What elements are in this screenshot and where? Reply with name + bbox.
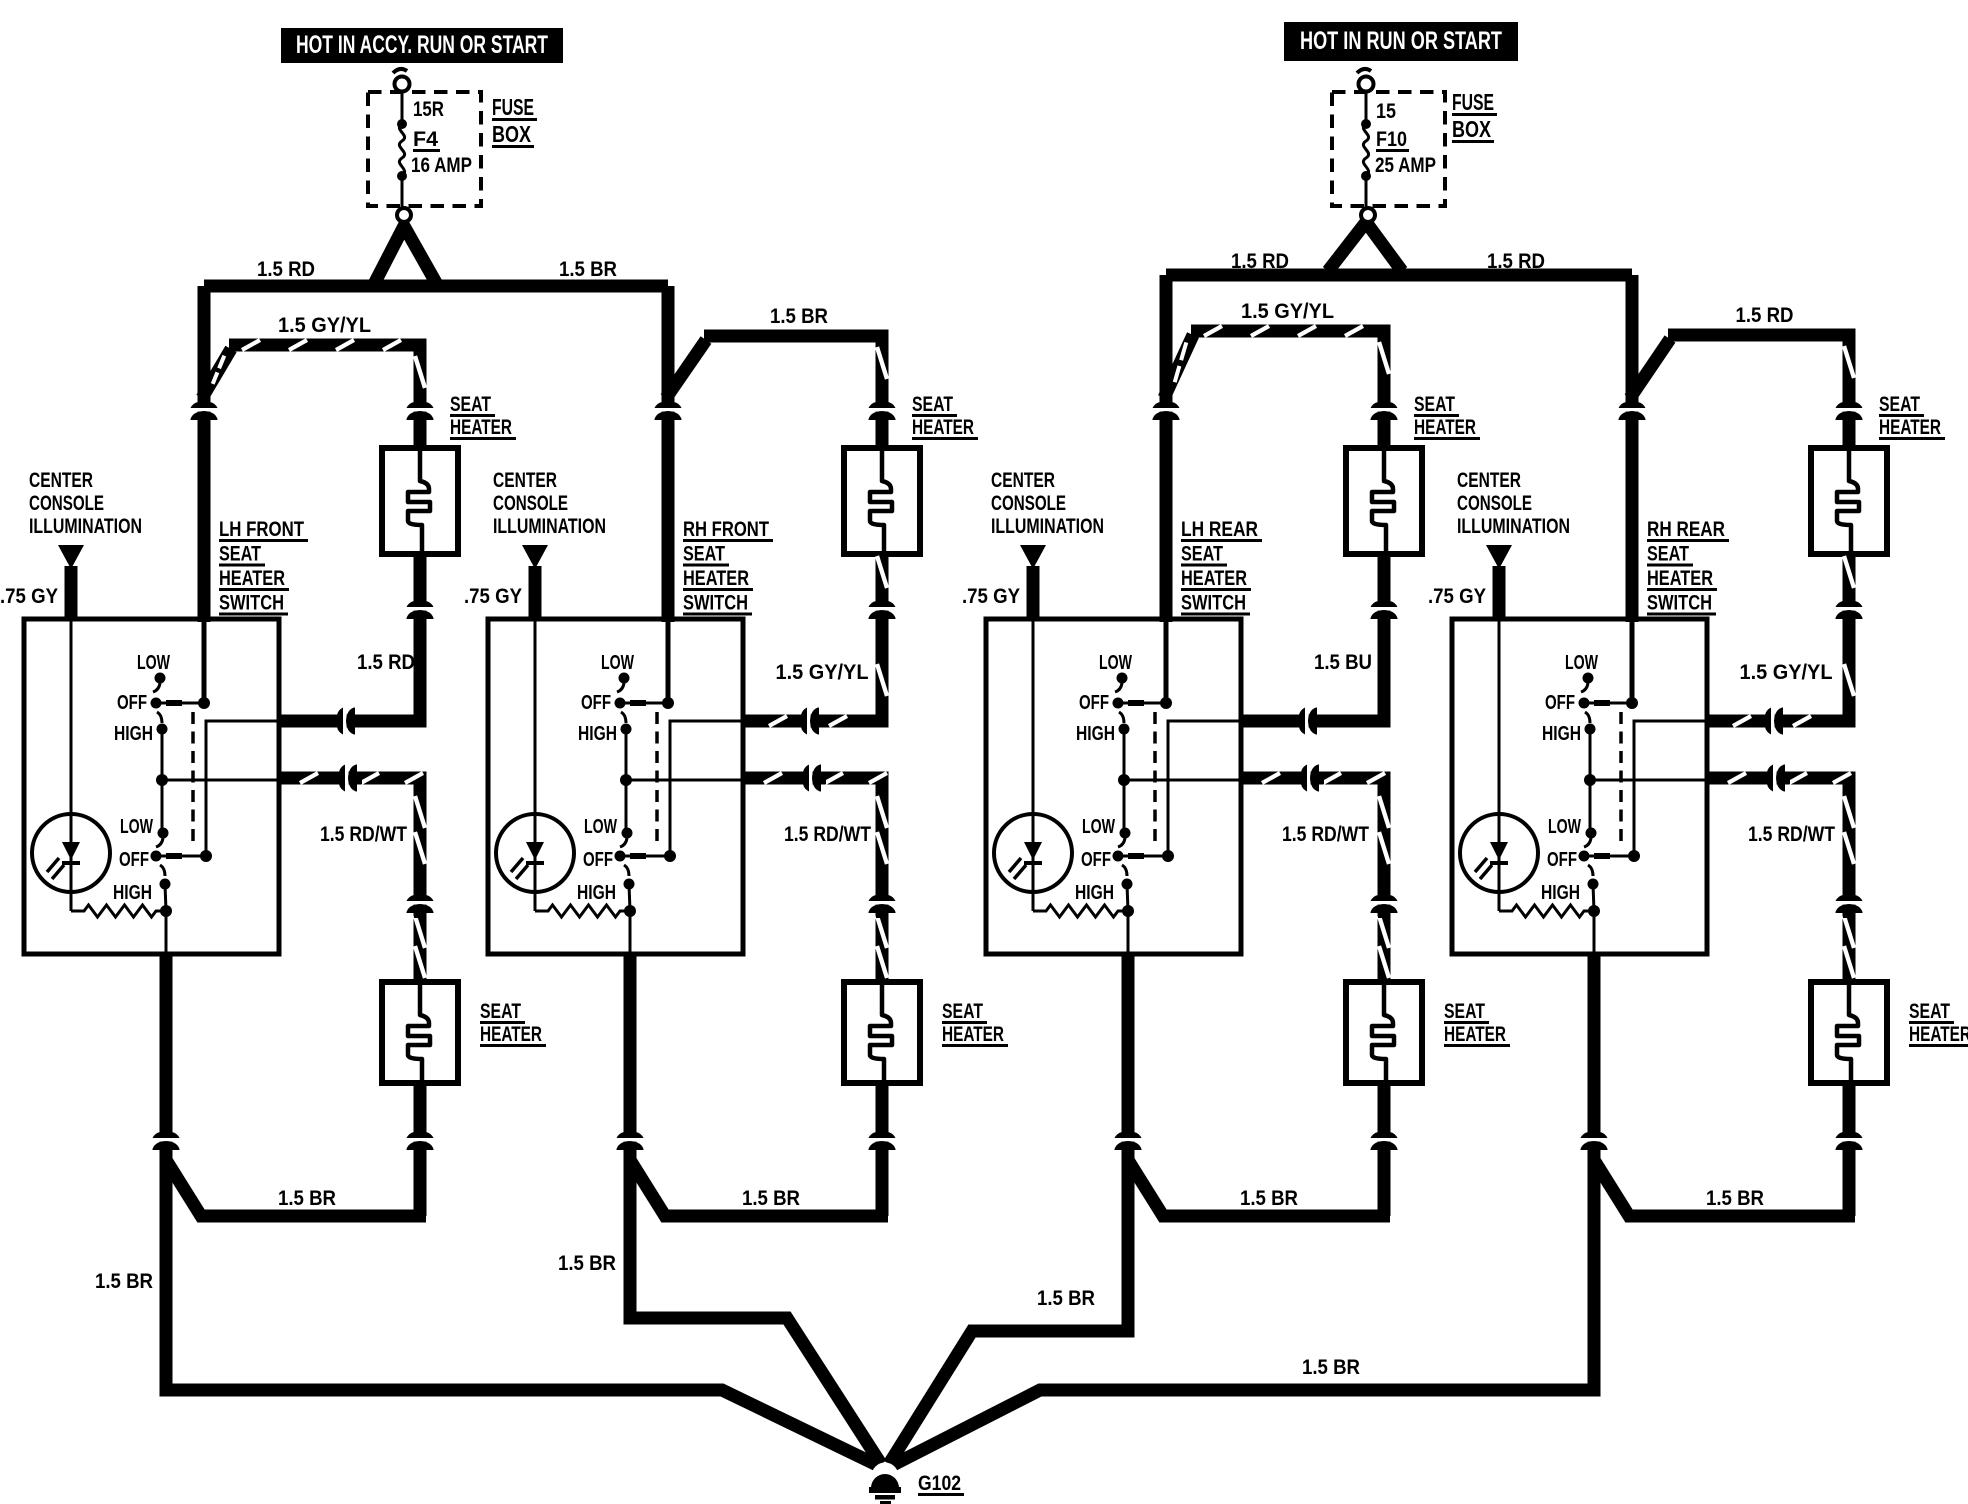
svg-text:1.5 BR: 1.5 BR: [1240, 1187, 1298, 1210]
wire 1.5 BR ground run (block 1): [166, 1160, 877, 1465]
svg-text:SEAT: SEAT: [450, 393, 491, 416]
label SEAT HEATER (lower, block 3): [1444, 1000, 1510, 1046]
svg-text:1.5 GY/YL: 1.5 GY/YL: [278, 314, 371, 337]
wire lower heater return (block 2): [876, 1083, 889, 1216]
wire Y-split from fuse F10: [1328, 222, 1402, 271]
label SEAT HEATER (lower, block 1): [480, 1000, 546, 1046]
svg-text:HOT IN ACCY. RUN OR START: HOT IN ACCY. RUN OR START: [296, 31, 548, 59]
wire switch 3 ground lead: [1122, 954, 1135, 1160]
label CENTER CONSOLE ILLUMINATION (block 3): [991, 469, 1104, 538]
label CENTER CONSOLE ILLUMINATION (block 1): [29, 469, 142, 538]
connector on feed wire (block 4): [1619, 391, 1646, 425]
lamp center console illumination (block 3): [994, 619, 1072, 911]
svg-text:HIGH: HIGH: [114, 723, 153, 745]
svg-text:OFF: OFF: [1079, 692, 1109, 714]
svg-text:BOX: BOX: [1452, 116, 1492, 142]
connector on upper exit (block 3): [1288, 708, 1322, 735]
connector on lower heater return (block 3): [1371, 1121, 1398, 1155]
seat heater (lower, block 3): [1346, 982, 1422, 1083]
wire lower heater return (block 4): [1843, 1083, 1856, 1216]
wire 1.5 RD/WT (block 2): [743, 778, 882, 982]
connector on heater return (block 2): [869, 590, 896, 624]
wire .75 GY (block 1): [65, 566, 78, 621]
wire 1.5 RD / 1.5 BR top bus (left): [204, 280, 668, 293]
svg-text:HEATER: HEATER: [219, 567, 285, 590]
seat heater (lower, block 1): [382, 982, 458, 1083]
svg-text:HEATER: HEATER: [683, 567, 749, 590]
label switch name (block 3): [1181, 518, 1262, 615]
svg-text:CONSOLE: CONSOLE: [1457, 492, 1532, 515]
svg-text:HEATER: HEATER: [1181, 567, 1247, 590]
power label HOT IN ACCY. RUN OR START: [281, 28, 563, 63]
svg-text:1.5 GY/YL: 1.5 GY/YL: [776, 661, 869, 684]
connector on ground lead (block 4): [1581, 1121, 1608, 1155]
svg-text:SEAT: SEAT: [1647, 543, 1689, 566]
svg-text:1.5 RD: 1.5 RD: [1231, 250, 1289, 273]
svg-text:SWITCH: SWITCH: [1647, 592, 1712, 615]
fuse F10 terminal labels: [1375, 100, 1436, 177]
svg-text:HEATER: HEATER: [1647, 567, 1713, 590]
wire .75 GY (block 4): [1493, 566, 1506, 621]
wire .75 GY (block 3): [1027, 566, 1040, 621]
label CENTER CONSOLE ILLUMINATION (block 2): [493, 469, 606, 538]
svg-text:1.5 BU: 1.5 BU: [1314, 651, 1372, 674]
svg-text:LH REAR: LH REAR: [1181, 518, 1258, 541]
svg-text:SEAT: SEAT: [912, 393, 953, 416]
svg-text:SEAT: SEAT: [1181, 543, 1223, 566]
svg-text:1.5 RD: 1.5 RD: [357, 651, 415, 674]
svg-text:CENTER: CENTER: [991, 469, 1055, 492]
resistor lamp dimming (block 4): [1499, 905, 1594, 917]
fuse F4 terminal labels: [411, 98, 472, 177]
svg-text:SEAT: SEAT: [942, 1000, 983, 1023]
wire seat heater return (block 3): [1241, 554, 1384, 721]
resistor lamp dimming (block 1): [71, 905, 166, 917]
connector on lower heater return (block 2): [869, 1121, 896, 1155]
svg-text:1.5 RD/WT: 1.5 RD/WT: [1282, 823, 1369, 846]
seat heater (upper, block 3): [1346, 448, 1422, 554]
svg-text:1.5 BR: 1.5 BR: [1706, 1187, 1764, 1210]
svg-text:HEATER: HEATER: [450, 416, 512, 439]
svg-text:1.5 RD: 1.5 RD: [257, 258, 315, 281]
resistor lamp dimming (block 2): [535, 905, 630, 917]
svg-text:OFF: OFF: [1545, 692, 1575, 714]
power label HOT IN RUN OR START: [1284, 22, 1518, 61]
connector above seat heater (block 3): [1371, 391, 1398, 425]
switch box outline (block 1): [24, 619, 279, 954]
wire 1.5 GY/YL branch (block 3): [1164, 335, 1193, 398]
svg-text:RH FRONT: RH FRONT: [683, 518, 769, 541]
svg-text:OFF: OFF: [1081, 849, 1111, 871]
switch contacts (block 2): [615, 619, 744, 954]
connector on upper exit (block 1): [326, 708, 360, 735]
seat heater (upper, block 1): [382, 448, 458, 554]
hatch 1.5 RD/WT (block 4): [1728, 773, 1854, 978]
connector above seat heater (block 2): [869, 391, 896, 425]
label CENTER CONSOLE ILLUMINATION (block 4): [1457, 469, 1570, 538]
svg-text:HIGH: HIGH: [1076, 723, 1115, 745]
lamp center console illumination (block 1): [32, 619, 110, 911]
seat heater (lower, block 2): [844, 982, 920, 1083]
label SEAT HEATER (upper, block 1): [450, 393, 516, 439]
svg-text:HEATER: HEATER: [1444, 1023, 1506, 1046]
svg-text:1.5 RD/WT: 1.5 RD/WT: [1748, 823, 1835, 846]
connector on feed wire (block 3): [1153, 391, 1180, 425]
svg-text:1.5 BR: 1.5 BR: [559, 258, 617, 281]
label G102: [918, 1472, 964, 1495]
svg-text:SEAT: SEAT: [1444, 1000, 1485, 1023]
hatch GY/YL upper exit (block 4): [1733, 556, 1854, 726]
connector on upper exit (block 4): [1754, 708, 1788, 735]
switch position labels (block 2): [577, 652, 634, 904]
svg-text:LOW: LOW: [1099, 652, 1132, 674]
label switch name (block 1): [219, 518, 308, 615]
wire 1.5 BR ground run (block 3): [889, 1160, 1128, 1464]
wire 1.5 RD/WT (block 1): [279, 778, 420, 982]
wire 1.5 BR ground run (block 2): [630, 1160, 881, 1464]
svg-text:SEAT: SEAT: [219, 543, 261, 566]
svg-text:BOX: BOX: [492, 121, 532, 147]
svg-text:CENTER: CENTER: [1457, 469, 1521, 492]
svg-text:.75 GY: .75 GY: [962, 585, 1020, 608]
svg-text:SWITCH: SWITCH: [1181, 592, 1246, 615]
connector on RD/WT exit (block 1): [328, 765, 362, 792]
fuse F10 (fuse box, 15, 25 AMP): [1332, 69, 1445, 222]
connector above seat heater (block 1): [407, 391, 434, 425]
connector on ground lead (block 2): [617, 1121, 644, 1155]
switch contacts (block 1): [151, 619, 280, 954]
svg-text:1.5 BR: 1.5 BR: [95, 1270, 153, 1293]
svg-text:LOW: LOW: [584, 816, 617, 838]
wire seat heater return (block 2): [743, 554, 882, 721]
svg-text:LOW: LOW: [1082, 816, 1115, 838]
svg-text:HIGH: HIGH: [578, 723, 617, 745]
svg-text:OFF: OFF: [119, 849, 149, 871]
connector on RD/WT exit (block 4): [1756, 765, 1790, 792]
seat heater (upper, block 4): [1811, 448, 1887, 554]
connector above lower seat heater (block 4): [1836, 884, 1863, 918]
svg-text:SEAT: SEAT: [1909, 1000, 1950, 1023]
svg-text:CONSOLE: CONSOLE: [991, 492, 1066, 515]
svg-text:1.5 RD/WT: 1.5 RD/WT: [320, 823, 407, 846]
label SEAT HEATER (upper, block 3): [1414, 393, 1480, 439]
wire 1.5 feed to switch 4: [1626, 275, 1639, 622]
hatch 1.5 RD/WT (block 3): [1262, 773, 1389, 978]
hatch 1.5 RD/WT (block 1): [300, 773, 425, 978]
svg-text:ILLUMINATION: ILLUMINATION: [991, 515, 1104, 538]
svg-text:SWITCH: SWITCH: [683, 592, 748, 615]
switch position labels (block 1): [113, 652, 170, 904]
svg-text:.75 GY: .75 GY: [464, 585, 522, 608]
connector on ground lead (block 1): [153, 1121, 180, 1155]
svg-text:HIGH: HIGH: [1075, 882, 1114, 904]
connector on upper exit (block 2): [790, 708, 824, 735]
connector on RD/WT exit (block 2): [792, 765, 826, 792]
svg-text:CONSOLE: CONSOLE: [493, 492, 568, 515]
svg-text:1.5 BR: 1.5 BR: [742, 1187, 800, 1210]
label switch name (block 4): [1647, 518, 1729, 615]
svg-text:SEAT: SEAT: [1879, 393, 1920, 416]
svg-text:HIGH: HIGH: [1541, 882, 1580, 904]
fuse F4 (fuse box, 15R, 16 AMP): [368, 69, 481, 222]
svg-text:LOW: LOW: [1565, 652, 1598, 674]
svg-text:1.5 RD/WT: 1.5 RD/WT: [784, 823, 871, 846]
svg-text:CENTER: CENTER: [493, 469, 557, 492]
switch box outline (block 2): [488, 619, 743, 954]
wire 1.5 RD/WT (block 3): [1241, 778, 1384, 982]
svg-text:HIGH: HIGH: [1542, 723, 1581, 745]
arrow center console illumination (block 4): [1486, 545, 1512, 569]
lamp center console illumination (block 2): [496, 619, 574, 911]
wire Y-split from fuse F4: [372, 226, 439, 288]
wire lower heater return (block 3): [1378, 1083, 1391, 1216]
svg-text:1.5 GY/YL: 1.5 GY/YL: [1241, 300, 1334, 323]
connector on feed wire (block 2): [655, 391, 682, 425]
arrow center console illumination (block 1): [58, 545, 84, 569]
svg-text:LOW: LOW: [137, 652, 170, 674]
svg-text:1.5 BR: 1.5 BR: [770, 305, 828, 328]
connector on RD/WT exit (block 3): [1290, 765, 1324, 792]
svg-text:ILLUMINATION: ILLUMINATION: [493, 515, 606, 538]
svg-text:FUSE: FUSE: [1452, 89, 1494, 115]
connector above lower seat heater (block 3): [1371, 884, 1398, 918]
arrow center console illumination (block 3): [1020, 545, 1046, 569]
svg-text:SEAT: SEAT: [683, 543, 725, 566]
connector on heater return (block 1): [407, 590, 434, 624]
switch box outline (block 4): [1452, 619, 1707, 954]
svg-text:HEATER: HEATER: [1909, 1023, 1968, 1046]
hatch GY/YL branch (block 3): [1175, 326, 1389, 382]
connector on heater return (block 3): [1371, 590, 1398, 624]
label SEAT HEATER (upper, block 4): [1879, 393, 1945, 439]
wire 1.5 feed to switch 3: [1160, 275, 1173, 622]
wire seat heater return (block 1): [279, 554, 420, 721]
svg-text:ILLUMINATION: ILLUMINATION: [1457, 515, 1570, 538]
svg-text:OFF: OFF: [581, 692, 611, 714]
svg-text:HEATER: HEATER: [942, 1023, 1004, 1046]
svg-text:.75 GY: .75 GY: [1428, 585, 1486, 608]
svg-text:G102: G102: [918, 1472, 961, 1495]
svg-text:SEAT: SEAT: [480, 1000, 521, 1023]
svg-text:CONSOLE: CONSOLE: [29, 492, 104, 515]
wire 1.5 BR ground run (block 4): [893, 1160, 1594, 1465]
switch contacts (block 3): [1113, 619, 1242, 954]
fuse box label (left): [492, 94, 537, 147]
connector on lower heater return (block 1): [407, 1121, 434, 1155]
svg-text:1.5 BR: 1.5 BR: [558, 1252, 616, 1275]
svg-text:LOW: LOW: [1548, 816, 1581, 838]
svg-text:HEATER: HEATER: [912, 416, 974, 439]
svg-text:HEATER: HEATER: [480, 1023, 542, 1046]
ground G102: [869, 1463, 901, 1504]
arrow center console illumination (block 2): [522, 545, 548, 569]
connector above lower seat heater (block 1): [407, 884, 434, 918]
wire 1.5 GY/YL branch (block 1): [202, 349, 231, 398]
wire branch to seat heater (block 2): [666, 340, 706, 398]
svg-text:LOW: LOW: [601, 652, 634, 674]
label switch name (block 2): [683, 518, 773, 615]
connector on heater return (block 4): [1836, 590, 1863, 624]
wire 1.5 feed to switch 1: [198, 286, 211, 622]
switch contacts (block 4): [1579, 619, 1708, 954]
hatch branch vertical (block 4): [1844, 346, 1854, 378]
svg-text:OFF: OFF: [1547, 849, 1577, 871]
svg-text:ILLUMINATION: ILLUMINATION: [29, 515, 142, 538]
svg-text:HIGH: HIGH: [577, 882, 616, 904]
wire 1.5 feed to switch 2: [662, 286, 675, 622]
lamp center console illumination (block 4): [1460, 619, 1538, 911]
svg-text:1.5 BR: 1.5 BR: [278, 1187, 336, 1210]
switch position labels (block 4): [1541, 652, 1598, 904]
wire branch to seat heater (block 4): [1630, 339, 1670, 398]
hatch GY/YL upper exit (block 2): [769, 556, 887, 726]
svg-text:F4: F4: [413, 128, 438, 151]
switch position labels (block 3): [1075, 652, 1132, 904]
svg-text:CENTER: CENTER: [29, 469, 93, 492]
svg-text:15R: 15R: [413, 98, 444, 121]
wire lower heater return (block 1): [414, 1083, 427, 1216]
svg-text:HEATER: HEATER: [1414, 416, 1476, 439]
svg-text:FUSE: FUSE: [492, 94, 534, 120]
seat heater (lower, block 4): [1811, 982, 1887, 1083]
connector on lower heater return (block 4): [1836, 1121, 1863, 1155]
label SEAT HEATER (upper, block 2): [912, 393, 978, 439]
wire switch 1 ground lead: [160, 954, 173, 1160]
seat heater (upper, block 2): [844, 448, 920, 554]
svg-text:F10: F10: [1376, 128, 1407, 151]
svg-text:25 AMP: 25 AMP: [1375, 154, 1436, 177]
svg-text:HIGH: HIGH: [113, 882, 152, 904]
svg-text:LH FRONT: LH FRONT: [219, 518, 304, 541]
svg-text:SWITCH: SWITCH: [219, 592, 284, 615]
svg-text:LOW: LOW: [120, 816, 153, 838]
wire .75 GY (block 2): [529, 566, 542, 621]
hatch 1.5 RD/WT (block 2): [764, 773, 887, 978]
hatch branch vertical (block 2): [877, 347, 887, 379]
svg-text:HEATER: HEATER: [1879, 416, 1941, 439]
svg-text:HOT IN RUN OR START: HOT IN RUN OR START: [1300, 27, 1502, 55]
svg-text:.75 GY: .75 GY: [0, 585, 58, 608]
svg-text:1.5 RD: 1.5 RD: [1736, 304, 1794, 327]
wire switch 2 ground lead: [624, 954, 637, 1160]
svg-text:1.5 GY/YL: 1.5 GY/YL: [1740, 661, 1833, 684]
svg-text:1.5 RD: 1.5 RD: [1487, 250, 1545, 273]
resistor lamp dimming (block 3): [1033, 905, 1128, 917]
connector on ground lead (block 3): [1115, 1121, 1142, 1155]
wire 1.5 RD/WT (block 4): [1707, 778, 1849, 982]
svg-text:RH REAR: RH REAR: [1647, 518, 1725, 541]
svg-text:15: 15: [1376, 100, 1396, 123]
hatch GY/YL branch (block 1): [213, 340, 425, 388]
wire seat heater return (block 4): [1707, 554, 1849, 721]
svg-text:16 AMP: 16 AMP: [411, 154, 472, 177]
connector above seat heater (block 4): [1836, 391, 1863, 425]
wire 1.5 RD / 1.5 RD top bus (right): [1166, 269, 1632, 282]
label SEAT HEATER (lower, block 2): [942, 1000, 1008, 1046]
svg-text:1.5 BR: 1.5 BR: [1037, 1287, 1095, 1310]
svg-text:1.5 BR: 1.5 BR: [1302, 1356, 1360, 1379]
connector above lower seat heater (block 2): [869, 884, 896, 918]
label SEAT HEATER (lower, block 4): [1909, 1000, 1968, 1046]
connector on feed wire (block 1): [191, 391, 218, 425]
switch box outline (block 3): [986, 619, 1241, 954]
svg-text:OFF: OFF: [583, 849, 613, 871]
wire switch 4 ground lead: [1588, 954, 1601, 1160]
svg-text:OFF: OFF: [117, 692, 147, 714]
fuse box label (right): [1452, 89, 1497, 142]
svg-text:SEAT: SEAT: [1414, 393, 1455, 416]
